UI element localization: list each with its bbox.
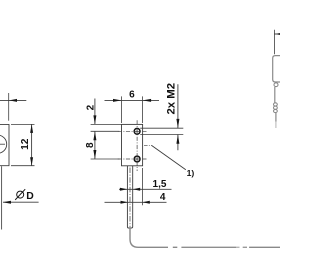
dimension 4: extension line from body right edge [141, 168, 143, 205]
dimension 12: bottom extension line [11, 165, 35, 167]
dimension 1,5: right arrowhead [133, 188, 141, 191]
svg-text:8: 8 [85, 142, 96, 148]
svg-text:12: 12 [20, 138, 31, 150]
connector: body (rounded, cut at right edge) [273, 56, 284, 82]
dimension 4: left arrowhead [121, 201, 129, 204]
dimension 6: right arrowhead [143, 99, 152, 102]
dimension 6: dimension line [105, 99, 160, 101]
svg-text:2x M2: 2x M2 [165, 83, 177, 115]
dimension 1,5: dimension line [119, 188, 172, 190]
svg-text:6: 6 [129, 89, 135, 100]
dimension 2x M2: upper tangent extension line [140, 127, 183, 129]
dimension 6: left arrowhead [113, 99, 122, 102]
connector: top dimension arrowhead (cut at right edge) [274, 33, 283, 36]
left side view: cable/cylinder edge line [1, 166, 3, 229]
connector: strain-relief ribs [274, 103, 278, 113]
connector: barrel left edge [274, 87, 276, 103]
note 1): centerline stub (dash-dot) [144, 144, 152, 146]
note 1): leader line [152, 145, 186, 169]
dimension 8: up arrowhead [93, 131, 96, 140]
screw hole M2 bottom [134, 156, 140, 162]
svg-text:1,5: 1,5 [153, 179, 167, 190]
left side view: circle centerline tick [0, 143, 5, 145]
dimension 12: vertical dimension line [31, 124, 33, 165]
dimension 1,5: left arrowhead [120, 188, 128, 191]
front view: sensor body rectangle [122, 124, 143, 165]
svg-text:2: 2 [85, 104, 96, 110]
dimension 8: down arrowhead [93, 150, 96, 159]
extension line bottom hole (left) [91, 158, 120, 160]
dimension 2x M2: vertical dimension line [177, 84, 179, 150]
left side view: body rectangle (cut off at left edge) [0, 124, 9, 165]
dimension ØD: label [15, 189, 25, 200]
dimension ØD: arrowhead pointing at cable edge [3, 201, 11, 204]
svg-text:1): 1) [187, 168, 195, 178]
front view: cable outlet tube [127, 166, 132, 228]
dimension 4: dimension line [105, 201, 167, 203]
screw hole M2 top [134, 128, 140, 134]
dimension 12: upper arrowhead [30, 124, 33, 132]
cable from tube to connector (chain line) [130, 228, 280, 247]
left view: extension line at body right edge [8, 93, 10, 121]
dimension 2x M2: lower tangent extension line [140, 134, 183, 136]
dimension 2: down arrowhead [93, 115, 96, 124]
dimension 6: left extension line [121, 96, 123, 123]
dimension 8: dimension line [94, 131, 96, 159]
connector: neck [274, 83, 278, 87]
dimension 12: lower arrowhead [30, 157, 33, 166]
dimension 12: top extension line [11, 123, 35, 125]
tube centerline (dash-dot) [129, 168, 131, 228]
dimension 2: dimension line upper part [94, 99, 96, 125]
left view: top dimension arrowhead [9, 99, 17, 102]
horizontal centerline bottom hole (dash-dot) [118, 158, 147, 160]
vertical centerline through holes (dash-dot) [136, 120, 138, 171]
connector cable stub (fading) [275, 113, 277, 122]
svg-text:4: 4 [160, 192, 166, 203]
svg-text:D: D [26, 191, 34, 202]
dimension 6: right extension line [142, 96, 144, 123]
extension line top hole (left) [91, 130, 120, 132]
dimension 2x M2: up arrowhead [176, 135, 179, 144]
horizontal centerline top hole (dash-dot) [118, 130, 147, 132]
connector: extension line [273, 30, 275, 55]
connector: top dimension line stub [274, 33, 280, 35]
dimension 4: right arrowhead [142, 201, 150, 204]
left side view: mounting circle [0, 135, 7, 153]
extension line body top (left) [91, 123, 122, 125]
left view: top dimension line (value off-canvas) [0, 99, 26, 101]
dimension 2x M2: down arrowhead [176, 119, 179, 128]
dimension ØD: leader line [3, 201, 39, 203]
